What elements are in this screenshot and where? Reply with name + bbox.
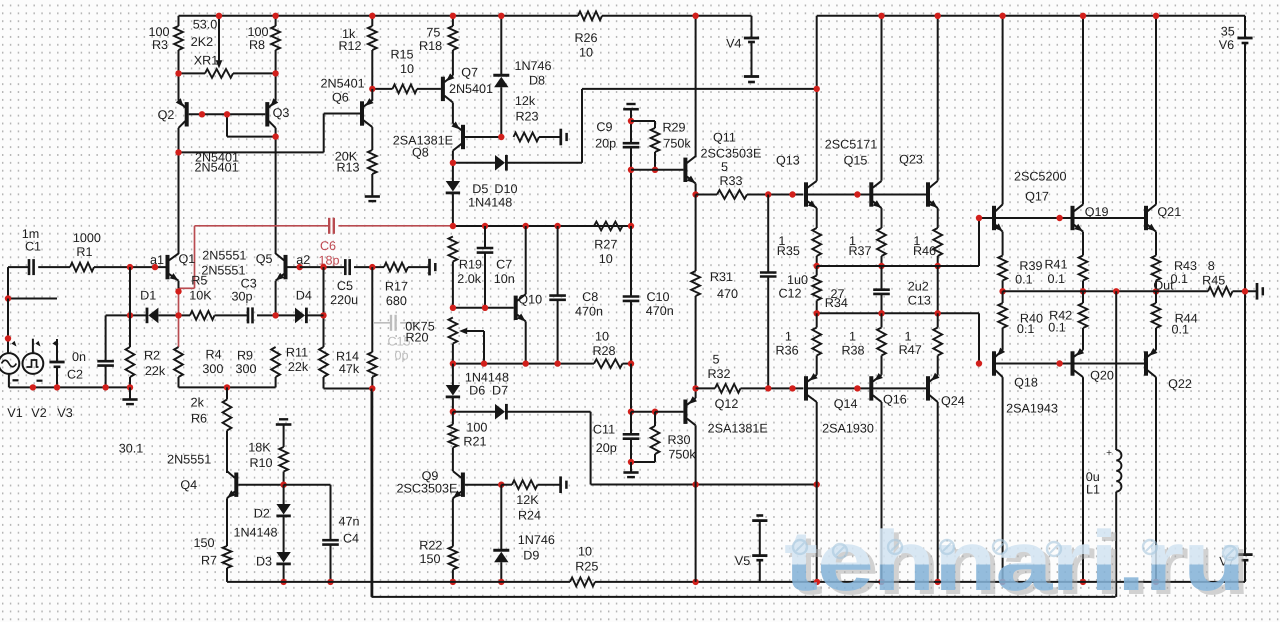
svg-text:1: 1: [904, 330, 911, 344]
svg-text:10: 10: [599, 252, 613, 266]
svg-text:2N5401: 2N5401: [195, 161, 239, 175]
svg-text:R22: R22: [419, 539, 442, 553]
svg-text:R17: R17: [385, 280, 408, 294]
svg-text:470: 470: [717, 287, 738, 301]
svg-text:Out: Out: [1153, 278, 1174, 292]
svg-text:10: 10: [400, 62, 414, 76]
svg-text:R43: R43: [1174, 259, 1197, 273]
svg-text:0.1: 0.1: [1015, 273, 1033, 287]
svg-text:C12: C12: [778, 287, 801, 301]
svg-text:R1: R1: [76, 245, 92, 259]
svg-text:75: 75: [426, 26, 440, 40]
svg-text:L1: L1: [1086, 483, 1100, 497]
svg-text:0n: 0n: [72, 350, 86, 364]
svg-text:V1: V1: [7, 406, 22, 420]
svg-text:R20: R20: [405, 331, 428, 345]
svg-text:10K: 10K: [189, 289, 212, 303]
svg-text:10: 10: [578, 545, 592, 559]
svg-text:R9: R9: [237, 349, 253, 363]
svg-text:2N5551: 2N5551: [201, 264, 245, 278]
svg-text:Q21: Q21: [1157, 205, 1181, 219]
svg-text:R13: R13: [336, 161, 359, 175]
svg-text:R11: R11: [286, 346, 308, 360]
svg-text:R29: R29: [662, 121, 685, 135]
svg-text:1: 1: [849, 330, 856, 344]
svg-text:Q22: Q22: [1168, 377, 1192, 391]
svg-text:30.1: 30.1: [119, 442, 144, 456]
svg-text:R35: R35: [777, 244, 800, 258]
svg-text:0.1: 0.1: [1171, 323, 1189, 337]
svg-text:2SC5171: 2SC5171: [825, 138, 878, 152]
svg-text:0p: 0p: [394, 349, 408, 363]
svg-text:2N5401: 2N5401: [321, 77, 365, 91]
svg-text:R45: R45: [1202, 273, 1225, 287]
svg-text:C8: C8: [582, 290, 598, 304]
svg-text:12k: 12k: [515, 94, 536, 108]
svg-text:47k: 47k: [339, 362, 360, 376]
svg-text:Q15: Q15: [844, 153, 868, 167]
svg-text:Q6: Q6: [332, 91, 349, 105]
svg-text:R39: R39: [1019, 259, 1042, 273]
svg-text:C7: C7: [496, 258, 512, 272]
svg-text:C1: C1: [25, 240, 41, 254]
svg-text:a1: a1: [150, 253, 164, 267]
svg-text:C13: C13: [908, 293, 931, 307]
svg-text:R7: R7: [201, 554, 217, 568]
svg-text:1: 1: [785, 330, 792, 344]
svg-text:Q7: Q7: [461, 66, 478, 80]
svg-text:V4: V4: [726, 37, 741, 51]
svg-text:C6: C6: [320, 239, 336, 253]
svg-text:D5: D5: [472, 182, 488, 196]
svg-text:2.0k: 2.0k: [457, 272, 482, 286]
svg-text:D1: D1: [140, 289, 156, 303]
svg-text:R15: R15: [390, 48, 413, 62]
svg-text:R23: R23: [515, 110, 538, 124]
svg-text:Q18: Q18: [1014, 376, 1038, 390]
svg-text:D10: D10: [494, 182, 517, 196]
svg-text:Q11: Q11: [713, 131, 736, 145]
svg-text:150: 150: [419, 552, 440, 566]
svg-text:R31: R31: [710, 270, 733, 284]
svg-text:100: 100: [148, 25, 169, 39]
svg-text:1N746: 1N746: [518, 533, 555, 547]
svg-text:1u0: 1u0: [787, 273, 808, 287]
svg-text:Q10: Q10: [518, 293, 542, 307]
svg-text:R5: R5: [191, 274, 207, 288]
svg-text:C10: C10: [646, 290, 669, 304]
svg-text:R10: R10: [249, 456, 272, 470]
svg-text:750k: 750k: [663, 137, 691, 151]
svg-text:1N746: 1N746: [514, 59, 551, 73]
svg-text:C2: C2: [67, 368, 83, 382]
svg-text:Q4: Q4: [180, 478, 197, 492]
svg-text:1N4148: 1N4148: [233, 526, 277, 540]
svg-text:XR1: XR1: [194, 54, 219, 68]
svg-text:Q12: Q12: [715, 397, 739, 411]
svg-text:20p: 20p: [595, 137, 616, 151]
svg-text:R41: R41: [1044, 257, 1067, 271]
svg-text:D8: D8: [529, 74, 545, 88]
svg-text:470n: 470n: [646, 304, 674, 318]
svg-text:5: 5: [712, 353, 719, 367]
svg-text:R25: R25: [575, 560, 598, 574]
svg-text:R3: R3: [152, 38, 168, 52]
svg-text:750k: 750k: [668, 448, 696, 462]
svg-text:Q8: Q8: [412, 146, 429, 160]
svg-text:Q2: Q2: [158, 108, 175, 122]
svg-text:680: 680: [386, 294, 407, 308]
svg-text:12K: 12K: [516, 493, 539, 507]
svg-text:2SA1943: 2SA1943: [1006, 401, 1058, 415]
svg-text:5: 5: [721, 160, 728, 174]
svg-text:R2: R2: [144, 349, 160, 363]
svg-text:D7: D7: [492, 384, 508, 398]
svg-text:10: 10: [595, 330, 609, 344]
svg-text:R33: R33: [719, 174, 742, 188]
svg-text:D3: D3: [256, 555, 272, 569]
svg-text:2N5551: 2N5551: [202, 249, 246, 263]
svg-text:R38: R38: [841, 343, 864, 357]
svg-text:D6: D6: [469, 384, 485, 398]
svg-text:220u: 220u: [330, 293, 358, 307]
svg-text:2N5401: 2N5401: [449, 82, 493, 96]
svg-text:2u2: 2u2: [908, 280, 929, 294]
svg-text:C4: C4: [343, 532, 359, 546]
svg-text:2SA1930: 2SA1930: [822, 421, 874, 435]
svg-text:V3: V3: [57, 406, 72, 420]
svg-text:0.1: 0.1: [1017, 322, 1035, 336]
svg-text:300: 300: [235, 362, 256, 376]
svg-text:Q16: Q16: [883, 393, 907, 407]
svg-text:R8: R8: [249, 38, 265, 52]
svg-text:53.0: 53.0: [193, 18, 218, 32]
svg-text:R19: R19: [459, 258, 482, 272]
svg-text:100: 100: [247, 25, 268, 39]
svg-text:C3: C3: [241, 277, 257, 291]
svg-text:R18: R18: [419, 39, 442, 53]
svg-text:R36: R36: [776, 343, 799, 357]
svg-text:10n: 10n: [494, 272, 515, 286]
svg-text:C11: C11: [593, 423, 615, 437]
svg-text:Q17: Q17: [1025, 190, 1049, 204]
svg-text:Q5: Q5: [256, 252, 273, 266]
svg-text:D9: D9: [523, 549, 539, 563]
svg-text:R37: R37: [848, 244, 871, 258]
svg-text:2SA1381E: 2SA1381E: [708, 422, 768, 436]
svg-text:R6: R6: [191, 412, 207, 426]
svg-text:R32: R32: [707, 367, 730, 381]
svg-text:Q1: Q1: [178, 252, 195, 266]
svg-text:R34: R34: [825, 296, 848, 310]
svg-text:18K: 18K: [248, 441, 271, 455]
svg-text:Q20: Q20: [1090, 369, 1114, 383]
svg-text:R26: R26: [574, 31, 597, 45]
svg-text:10: 10: [579, 46, 593, 60]
svg-text:C5: C5: [337, 279, 353, 293]
svg-text:Q14: Q14: [834, 397, 858, 411]
svg-text:D4: D4: [296, 289, 312, 303]
svg-text:R30: R30: [667, 433, 690, 447]
svg-text:+: +: [1106, 448, 1112, 459]
svg-text:8: 8: [1208, 259, 1215, 273]
svg-text:Q13: Q13: [776, 153, 800, 167]
svg-text:2N5551: 2N5551: [167, 453, 211, 467]
svg-text:R47: R47: [899, 343, 922, 357]
svg-text:1N4148: 1N4148: [468, 196, 512, 210]
svg-text:D2: D2: [254, 507, 270, 521]
svg-text:R24: R24: [518, 509, 541, 523]
svg-text:C9: C9: [596, 120, 612, 134]
svg-text:Q24: Q24: [941, 394, 965, 408]
svg-text:2k: 2k: [191, 396, 205, 410]
svg-text:V2: V2: [31, 406, 46, 420]
svg-text:R27: R27: [594, 238, 617, 252]
svg-text:47n: 47n: [338, 515, 359, 529]
svg-text:2SC3503E: 2SC3503E: [701, 147, 762, 161]
svg-text:300: 300: [202, 362, 223, 376]
svg-text:2SC5200: 2SC5200: [1014, 169, 1067, 183]
svg-text:22k: 22k: [145, 364, 166, 378]
svg-text:R12: R12: [338, 39, 361, 53]
svg-text:Q19: Q19: [1085, 205, 1109, 219]
svg-text:Q3: Q3: [273, 106, 290, 120]
svg-text:': ': [1111, 484, 1113, 495]
svg-text:1N4148: 1N4148: [465, 371, 509, 385]
svg-text:R4: R4: [206, 348, 222, 362]
svg-text:30p: 30p: [231, 290, 252, 304]
svg-text:150: 150: [193, 536, 214, 550]
svg-text:0.1: 0.1: [1048, 321, 1066, 335]
svg-text:470n: 470n: [575, 305, 603, 319]
svg-text:V5: V5: [735, 554, 750, 568]
svg-text:100: 100: [466, 421, 487, 435]
svg-text:0.1: 0.1: [1048, 272, 1066, 286]
svg-text:20p: 20p: [596, 441, 617, 455]
svg-text:V6: V6: [1219, 38, 1234, 52]
svg-text:2K2: 2K2: [191, 35, 213, 49]
svg-text:1000: 1000: [73, 231, 101, 245]
svg-text:R28: R28: [592, 344, 615, 358]
svg-text:2SC3503E: 2SC3503E: [397, 482, 458, 496]
svg-text:22k: 22k: [288, 360, 309, 374]
svg-text:R21: R21: [463, 435, 486, 449]
svg-text:Q23: Q23: [899, 153, 923, 167]
svg-text:35: 35: [1221, 25, 1235, 39]
svg-text:R46: R46: [913, 244, 936, 258]
